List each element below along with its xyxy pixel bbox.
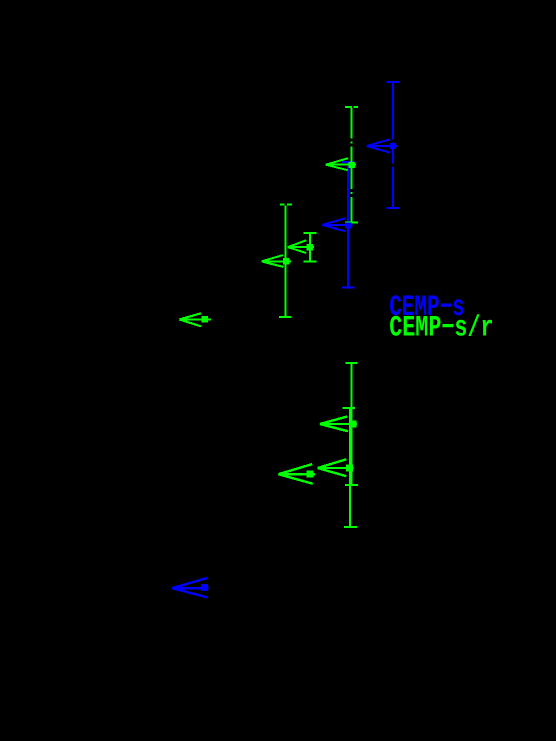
point E (green, tall error bar, dashed top cap) <box>279 205 292 317</box>
point G marker <box>349 421 356 428</box>
point B arrow <box>326 158 356 170</box>
point A (blue, upper right): error bar <box>387 82 400 208</box>
point D arrow <box>288 240 314 253</box>
point I (blue, arrow only) <box>172 578 209 598</box>
point I marker <box>201 584 208 591</box>
point E marker <box>283 258 289 264</box>
point G arrow (green) <box>320 417 357 432</box>
point D (green, short error bar) <box>304 233 317 262</box>
point A arrow <box>367 139 397 152</box>
point B marker <box>349 162 355 168</box>
point D marker <box>307 244 313 250</box>
point F marker <box>201 316 208 323</box>
lower panel error bar 1 (green) <box>345 363 358 485</box>
svg-text:CEMP−s/r: CEMP−s/r <box>389 310 493 344</box>
point H2 arrow (green, on error bar) <box>318 459 354 476</box>
point H1 arrow (green, left) <box>278 464 315 484</box>
lower panel error bar 2 (green) <box>343 408 357 527</box>
point A marker <box>390 143 396 149</box>
point B (green, dash-dot error bar) <box>345 107 358 222</box>
point C (blue): error bar <box>342 162 355 288</box>
point C marker <box>345 222 351 228</box>
point H1 marker <box>306 470 313 477</box>
point E arrow <box>262 255 291 267</box>
point C arrow <box>322 218 352 231</box>
point H2 marker <box>346 464 353 471</box>
point F (green, arrow only) <box>179 313 211 326</box>
